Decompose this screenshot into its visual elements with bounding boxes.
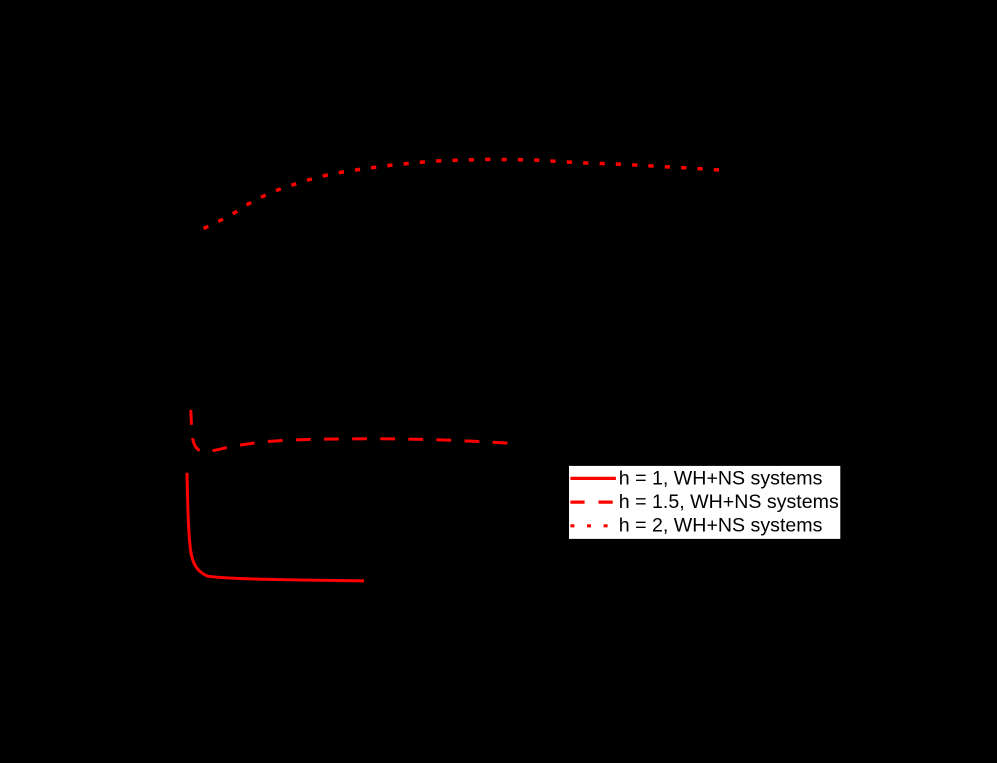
svg-text:h = 2, WH+NS systems: h = 2, WH+NS systems xyxy=(619,515,823,537)
svg-text:h = 1, WH+NS systems: h = 1, WH+NS systems xyxy=(619,467,823,489)
svg-text:h = 1.5, WH+NS systems: h = 1.5, WH+NS systems xyxy=(619,491,839,513)
